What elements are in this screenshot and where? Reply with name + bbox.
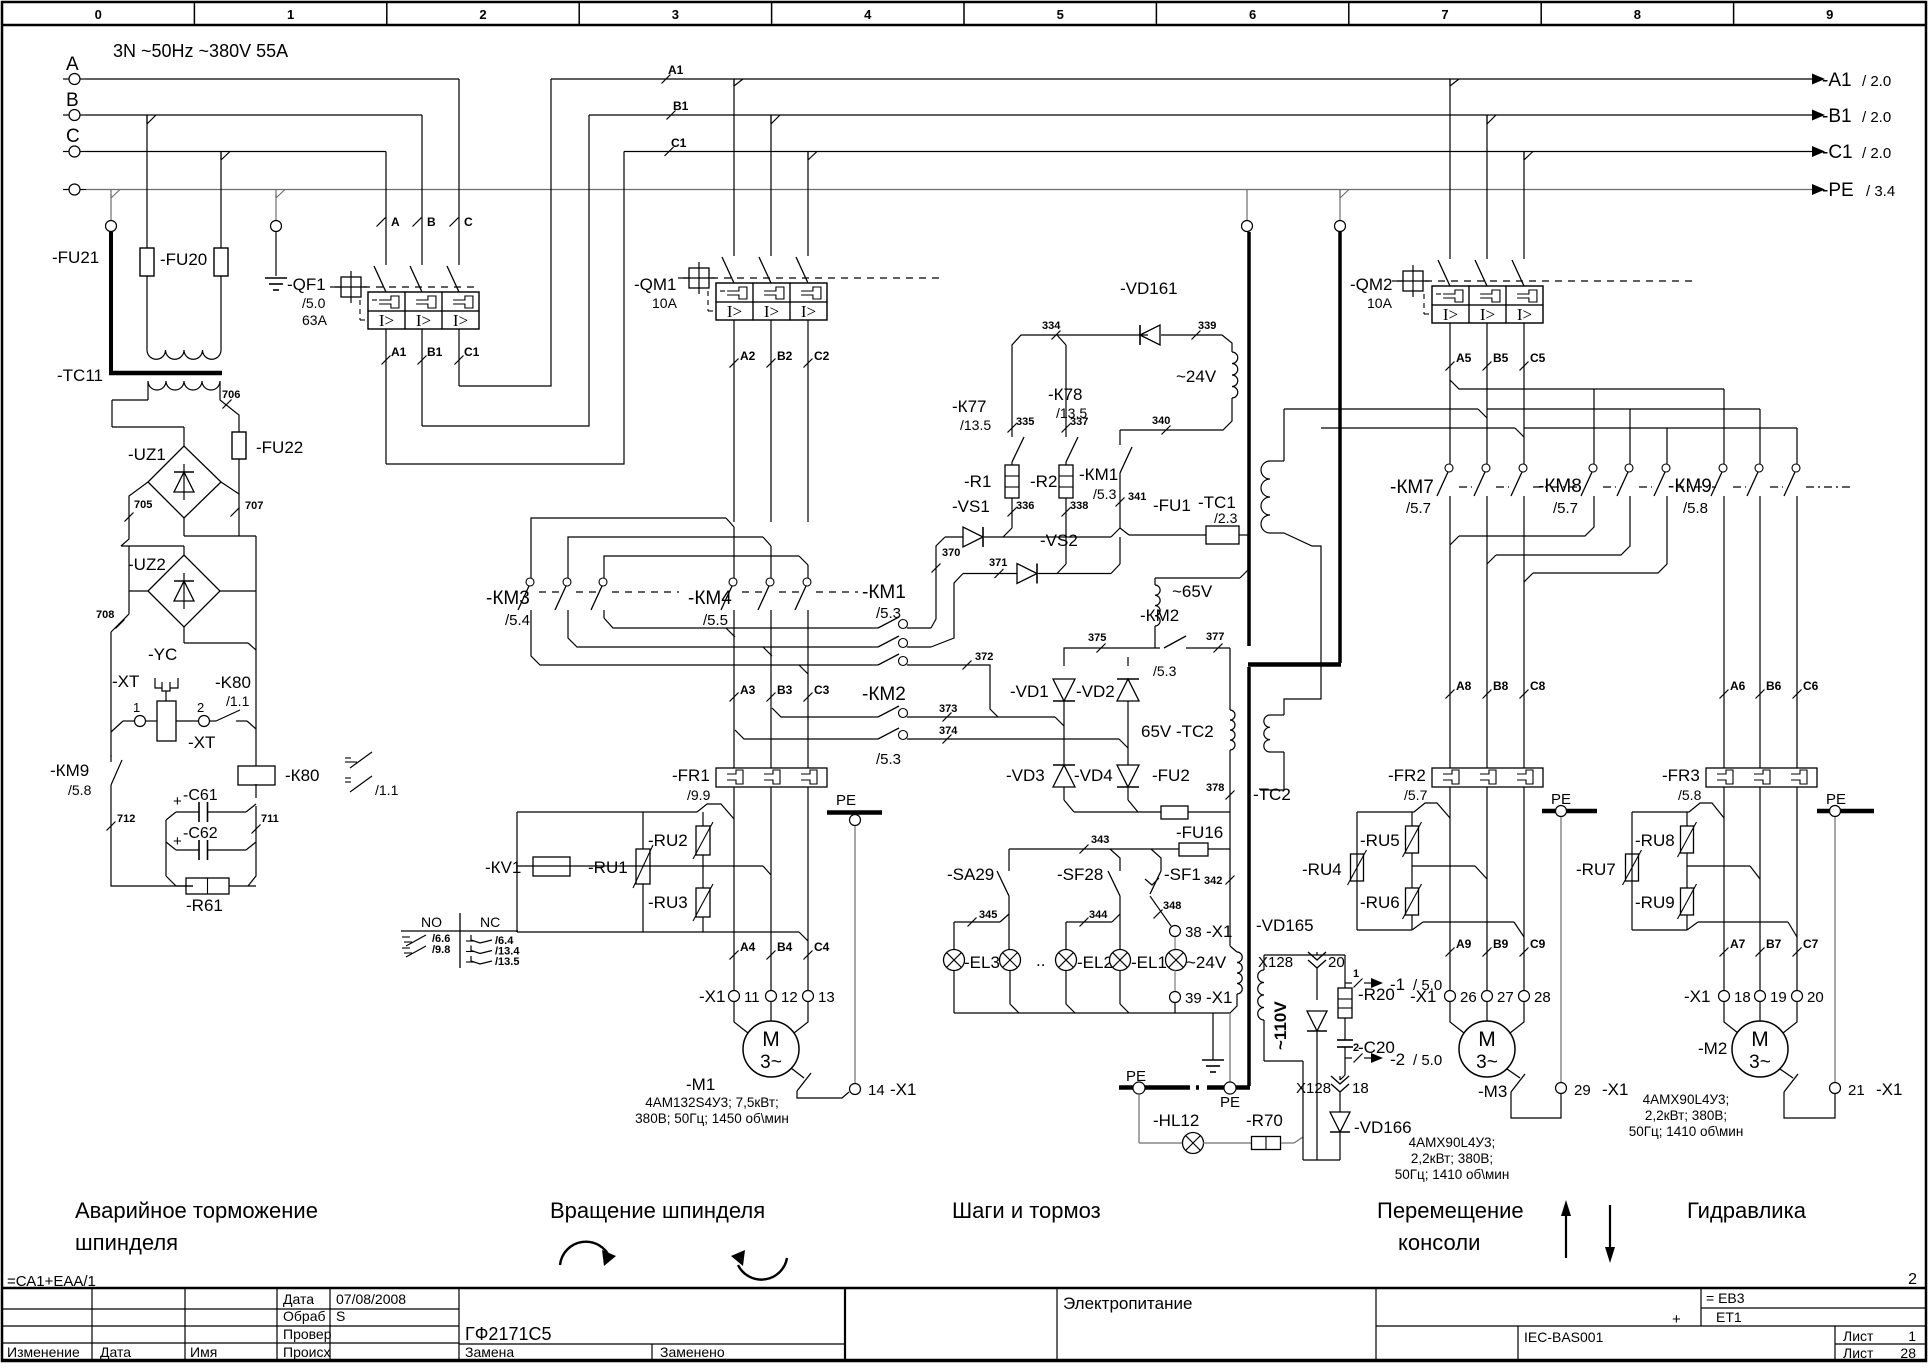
svg-text:-С61: -С61 (183, 787, 218, 804)
node B6 slash (1756, 690, 1765, 699)
svg-text:340: 340 (1152, 415, 1170, 427)
wire XT left (123, 720, 134, 722)
svg-text:28: 28 (1900, 1345, 1916, 1361)
svg-text:-SA29: -SA29 (947, 865, 994, 884)
wire lamp EL2 bottom (1065, 970, 1067, 1004)
wire KM3-C out (531, 618, 872, 665)
svg-text:-PE: -PE (1822, 180, 1854, 201)
node C2 slash (807, 320, 809, 522)
svg-text:-SF28: -SF28 (1057, 865, 1103, 884)
wire 65V-2 vertical top (1229, 648, 1231, 710)
wire M3 in B (1486, 1002, 1488, 1021)
svg-text:C8: C8 (1530, 679, 1546, 693)
svg-text:-К80: -К80 (285, 766, 319, 785)
svg-text:М: М (1751, 1028, 1769, 1051)
wire UZ1 bottom (183, 518, 185, 536)
wire 375 rail (1064, 648, 1160, 657)
svg-text:/ 2.0: / 2.0 (1862, 145, 1891, 162)
terminal 18 (1719, 991, 1730, 1002)
varistor RU5 (1411, 812, 1413, 826)
svg-text:705: 705 (134, 499, 152, 511)
wire phase C jog QM1 (807, 152, 809, 161)
svg-text:-FR1: -FR1 (672, 766, 710, 785)
wire KM1-1 up to VS1 (931, 537, 945, 628)
node 340 (1162, 426, 1171, 435)
svg-text:Электропитание: Электропитание (1063, 1294, 1192, 1313)
wire M2 phase B (1759, 787, 1761, 990)
svg-text:29: 29 (1574, 1082, 1591, 1099)
svg-text:-RU1: -RU1 (588, 858, 628, 877)
node PE partition 2 (1335, 221, 1346, 232)
svg-text:-FR2: -FR2 (1388, 766, 1426, 785)
arrow PE/3.4 (1812, 184, 1825, 195)
wire RU top rail (517, 811, 697, 813)
wire KM8B out merge (1496, 504, 1630, 555)
wire KM2-1 left (772, 708, 872, 717)
svg-text:-X1: -X1 (1206, 922, 1232, 941)
relay coil KV1 (533, 857, 570, 876)
varistor RU4 (1351, 854, 1364, 881)
node C4 slash (804, 951, 813, 960)
wire KM3-A out (604, 618, 872, 628)
contactor KM2 contacts (872, 716, 878, 718)
partition horizontal (1248, 662, 1341, 667)
fuse FU20 pole2 (214, 248, 228, 276)
svg-text:-YC: -YC (148, 645, 177, 664)
node 336 (1008, 508, 1017, 517)
node A5 slash (1449, 323, 1451, 380)
svg-text:345: 345 (979, 909, 997, 921)
svg-text:NO: NO (421, 914, 442, 930)
svg-text:A7: A7 (1730, 937, 1746, 951)
svg-text:-X1: -X1 (1876, 1080, 1902, 1099)
wire TC11 sec right (219, 381, 221, 400)
node 348 (1154, 910, 1163, 919)
node A1 out slash (385, 329, 387, 464)
tap -2/5.0 (1345, 1057, 1352, 1059)
svg-text:334: 334 (1042, 320, 1061, 332)
svg-text:/5.7: /5.7 (1553, 500, 1578, 517)
label B3 (767, 693, 776, 702)
node PE partition 1 (1242, 221, 1253, 232)
diode VD165 diode (1307, 1011, 1327, 1031)
arrow down (1609, 1205, 1611, 1255)
KM3 dashed link (539, 591, 560, 593)
wire lamp EL1 bottom (1119, 970, 1121, 1004)
terminal 28 (1519, 991, 1530, 1002)
svg-text:A4: A4 (740, 940, 756, 954)
node B9 slash (1483, 948, 1492, 957)
breaker QF1 dashed link (363, 286, 475, 288)
motor M2 (1732, 1021, 1788, 1077)
terminal B (69, 110, 80, 121)
svg-text:-К77: -К77 (952, 397, 986, 416)
svg-text:-K80: -K80 (215, 673, 251, 692)
varistor RU1 (642, 812, 644, 849)
node 344 (1066, 921, 1112, 923)
wire phase B jog FU20 (146, 115, 148, 124)
contactor KM4 contacts (729, 578, 737, 586)
lamp EL2 (1056, 950, 1077, 971)
wire C1 to bus A1 (459, 79, 551, 386)
svg-text:М: М (762, 1028, 780, 1051)
lamp 24V (1174, 937, 1176, 950)
wire M2 out to 21 (1784, 1092, 1835, 1118)
node C1 out slash (458, 329, 460, 386)
svg-text:3~: 3~ (1749, 1052, 1771, 1073)
wire UZ1 top feed (112, 426, 184, 428)
svg-text:-R1: -R1 (964, 472, 991, 491)
node A4 slash (730, 951, 739, 960)
wire B1 to bus B1 (422, 115, 589, 426)
partition line left (1247, 232, 1251, 646)
wire TC1 primary top (1283, 409, 1285, 461)
svg-text:11: 11 (744, 989, 760, 1006)
wire TC1 to TC2 (1284, 533, 1321, 715)
svg-text:343: 343 (1091, 834, 1109, 846)
wire lamp EL3b bottom (1009, 970, 1011, 1004)
transformer TC1 primary (1270, 460, 1284, 462)
node B1 out slash (421, 329, 423, 426)
svg-text:A1: A1 (391, 345, 407, 359)
svg-text:339: 339 (1198, 320, 1216, 332)
wire left rail corner (111, 880, 193, 886)
resistor R61 (176, 885, 193, 887)
svg-text:NC: NC (480, 914, 500, 930)
svg-text:+: + (173, 793, 182, 810)
partition line bottom (1247, 667, 1251, 1086)
breaker QM1 handle (689, 268, 709, 288)
svg-text:C9: C9 (1530, 937, 1546, 951)
svg-text:-UZ1: -UZ1 (128, 445, 166, 464)
wire M1 PE blade (791, 1068, 804, 1078)
svg-text:Провер: Провер (283, 1326, 332, 1342)
wire M2 phase C (1796, 787, 1798, 990)
node C9 slash (1520, 948, 1529, 957)
svg-text:-FU16: -FU16 (1176, 823, 1223, 842)
wire phase A jog QM2 (733, 79, 735, 86)
svg-text:373: 373 (939, 703, 957, 715)
terminal PE (69, 184, 80, 195)
contact K78 (1066, 437, 1078, 462)
svg-text:Имя: Имя (190, 1344, 217, 1360)
contact K77 (1012, 437, 1024, 462)
svg-text:-VD165: -VD165 (1256, 916, 1314, 935)
fuse FU22 (232, 432, 246, 459)
svg-text:19: 19 (1770, 989, 1787, 1006)
svg-text:B6: B6 (1766, 679, 1782, 693)
svg-text:PE: PE (1126, 1068, 1146, 1085)
breaker QM1 box (716, 283, 827, 320)
wire RU4 bottom rail (1357, 929, 1412, 931)
svg-text:Аварийное торможение: Аварийное торможение (75, 1198, 318, 1223)
wire bus row1 (1450, 380, 1724, 389)
wire KM9A down (1723, 504, 1725, 768)
wire right rail (255, 784, 257, 798)
terminal 26 (1445, 991, 1456, 1002)
svg-text:50Гц; 1410 об\мин: 50Гц; 1410 об\мин (1629, 1124, 1744, 1139)
wire bus KM3-B (568, 537, 763, 578)
transformer TC2 secondary 65V-2 (1230, 710, 1235, 750)
svg-text:+: + (1672, 1311, 1681, 1328)
svg-text:4: 4 (864, 7, 872, 22)
svg-text:712: 712 (117, 813, 135, 825)
wire FU20 out1 (146, 276, 148, 350)
svg-text:-EL2: -EL2 (1077, 953, 1113, 972)
svg-text:Лист: Лист (1843, 1345, 1874, 1361)
node B4 slash (767, 951, 776, 960)
svg-text:-VD166: -VD166 (1354, 1118, 1412, 1137)
arrow up (1565, 1208, 1567, 1258)
svg-text:2,2кВт; 380В;: 2,2кВт; 380В; (1645, 1108, 1727, 1123)
terminal 19 (1755, 991, 1766, 1002)
svg-text:3~: 3~ (1476, 1052, 1498, 1073)
svg-text:/5.7: /5.7 (1406, 500, 1431, 517)
svg-text:-X1: -X1 (890, 1080, 916, 1099)
breaker QM2 blades (1438, 260, 1450, 286)
pole labels A B C (377, 218, 386, 227)
wire bus row3 drop KM8C (1666, 428, 1668, 464)
svg-text:C: C (464, 215, 473, 229)
arrow A1/2.0 (1812, 74, 1825, 85)
svg-text:-R70: -R70 (1246, 1111, 1283, 1130)
svg-text:I>: I> (727, 302, 742, 321)
svg-text:-EL3: -EL3 (964, 953, 1000, 972)
svg-text:Гидравлика: Гидравлика (1687, 1198, 1807, 1223)
wire M2 phase A (1723, 787, 1725, 990)
svg-text:/5.5: /5.5 (703, 612, 728, 629)
wire FU1 to 65V (1240, 535, 1248, 578)
svg-text:-КМ1: -КМ1 (1079, 465, 1118, 484)
svg-text:A9: A9 (1456, 937, 1472, 951)
svg-text:20: 20 (1328, 954, 1345, 971)
svg-text:/5.3: /5.3 (876, 605, 901, 622)
svg-text:М: М (1478, 1028, 1496, 1051)
svg-text:1: 1 (133, 700, 140, 715)
wire M3 PE blade (1507, 1069, 1520, 1078)
node 337 (1062, 424, 1071, 433)
svg-text:=СА1+ЕАА/1: =СА1+ЕАА/1 (7, 1273, 96, 1290)
svg-text:/5.3: /5.3 (1153, 663, 1177, 679)
svg-text:3~: 3~ (760, 1052, 782, 1073)
wire QM2 pole B top (1486, 115, 1488, 259)
wire bus 335 (1012, 335, 1148, 437)
svg-text:~110V: ~110V (1271, 1001, 1290, 1050)
wire 65V-1 bottom (1154, 626, 1156, 648)
svg-text:6: 6 (1249, 7, 1256, 22)
wire bus to PE2 (1229, 1013, 1231, 1082)
node B5 slash (1486, 323, 1488, 400)
node 338 (1062, 508, 1071, 517)
wire QF1 pole C top (385, 152, 387, 266)
wire QM1 pole C top (807, 152, 809, 257)
wire RU bottom rail (517, 931, 799, 933)
svg-text:-R61: -R61 (186, 896, 223, 915)
lamp EL3a (944, 950, 965, 971)
connector X128-20 (1308, 952, 1326, 960)
wire RU mid rail (517, 865, 763, 867)
svg-text:1: 1 (1908, 1328, 1916, 1344)
terminal 21 (1830, 1083, 1841, 1094)
wire C20 down (1344, 1058, 1346, 1075)
label A3 (730, 693, 739, 702)
wire KM8A out merge (1459, 504, 1594, 536)
svg-text:A6: A6 (1730, 679, 1746, 693)
wire M1 in B (770, 1002, 772, 1021)
varistor RU6 (1411, 866, 1413, 888)
svg-text:2: 2 (479, 7, 486, 22)
svg-text:-RU8: -RU8 (1635, 831, 1675, 850)
breaker QF1 blades (374, 266, 386, 292)
svg-text:-A1: -A1 (1822, 70, 1852, 91)
svg-text:337: 337 (1070, 416, 1088, 428)
wire M3 phase C (1523, 787, 1525, 990)
svg-text:-RU3: -RU3 (648, 893, 688, 912)
svg-text:-X1: -X1 (699, 987, 725, 1006)
rectifier UZ1 (148, 446, 221, 518)
capacitor C20 (1337, 1039, 1353, 1041)
node C6 slash (1793, 690, 1802, 699)
node 711 (252, 825, 261, 834)
svg-text:10А: 10А (652, 295, 678, 311)
wire KM3-B out (568, 618, 872, 647)
svg-text:/5.8: /5.8 (68, 782, 92, 798)
svg-text:-VD3: -VD3 (1006, 766, 1045, 785)
diode VD3 (1063, 726, 1065, 765)
relay coil K80 (238, 766, 275, 785)
wire QM1 pole A top (733, 79, 735, 256)
wire RU4 top rail (1357, 803, 1450, 818)
svg-text:/5.0: /5.0 (302, 295, 326, 311)
wire 343 rail (1008, 849, 1010, 871)
svg-text:18: 18 (1352, 1080, 1369, 1097)
title block grid (2, 1287, 1926, 1290)
wire QM2 pole A top (1449, 79, 1451, 259)
wire VS junction vertical (1111, 528, 1120, 537)
svg-text:Х128: Х128 (1258, 954, 1293, 971)
ground lamp bus (1212, 1013, 1214, 1060)
breaker QM1 dashed link (711, 277, 940, 279)
diode VS1 (945, 536, 963, 538)
svg-text:I>: I> (1480, 305, 1495, 324)
wire M2 in C (1783, 1002, 1797, 1033)
connector X128-18 (1339, 1076, 1341, 1080)
svg-text:B8: B8 (1493, 679, 1509, 693)
svg-text:-С62: -С62 (183, 825, 218, 842)
svg-text:335: 335 (1016, 416, 1034, 428)
svg-text:-QМ2: -QМ2 (1350, 275, 1393, 294)
varistor RU7 (1626, 854, 1639, 881)
svg-text:-XT: -XT (188, 733, 215, 752)
svg-text:-FU2: -FU2 (1152, 766, 1190, 785)
wire KM1-2 up to VS2 (931, 574, 963, 648)
wire PE jog TC partition (1339, 190, 1341, 199)
svg-text:-RU7: -RU7 (1576, 860, 1616, 879)
node A7 slash (1720, 948, 1729, 957)
svg-text:-RU4: -RU4 (1302, 860, 1342, 879)
wire mid 546 (121, 545, 184, 547)
svg-text:~24V: ~24V (1186, 953, 1227, 972)
svg-text:/ 5.0: / 5.0 (1413, 1052, 1442, 1069)
svg-text:/5.7: /5.7 (1404, 787, 1428, 803)
varistor RU3 (702, 866, 704, 888)
terminal 13 (803, 991, 814, 1002)
wire KM1-3 to 372 (931, 665, 998, 717)
wire KM2-1 join bridge (1055, 717, 1064, 726)
wire KM9C drop (1796, 428, 1798, 464)
svg-text:I>: I> (379, 311, 394, 330)
terminal 11 (729, 991, 740, 1002)
svg-text:-КМ1: -КМ1 (862, 582, 906, 603)
node 373 (943, 713, 952, 722)
svg-text:A: A (391, 215, 400, 229)
breaker QM1 blades (722, 257, 734, 283)
node A9 slash (1446, 948, 1455, 957)
svg-text:4АМХ90L4У3;: 4АМХ90L4У3; (1409, 1135, 1496, 1150)
wire RU7 left vertical (1631, 812, 1633, 930)
wire M3 phase B (1486, 787, 1488, 990)
svg-text:IEC-BAS001: IEC-BAS001 (1524, 1329, 1604, 1345)
svg-text:-QF1: -QF1 (287, 275, 326, 294)
svg-text:/9.8: /9.8 (432, 944, 450, 956)
svg-text:~24V: ~24V (1176, 367, 1217, 386)
node 377 (1214, 644, 1223, 653)
svg-text:-C1: -C1 (1822, 142, 1853, 163)
svg-text:Заменено: Заменено (660, 1344, 725, 1360)
svg-text:341: 341 (1128, 491, 1146, 503)
svg-text:-RU2: -RU2 (648, 831, 688, 850)
wire M3 phase A (1449, 787, 1451, 990)
fuse FU1 (1120, 528, 1129, 535)
svg-text:C: C (66, 126, 80, 147)
svg-text:-QM1: -QM1 (634, 275, 677, 294)
svg-text:~65V: ~65V (1172, 582, 1213, 601)
svg-text:374: 374 (939, 725, 958, 737)
svg-text:Замена: Замена (465, 1344, 514, 1360)
wire PE drop partition 2 (1339, 190, 1341, 221)
svg-text:708: 708 (96, 609, 114, 621)
svg-text:3N ~50Hz ~380V 55A: 3N ~50Hz ~380V 55A (113, 41, 288, 61)
wire M2 in B (1759, 1002, 1761, 1021)
svg-text:-EL1: -EL1 (1131, 953, 1167, 972)
wire 342 vertical (1229, 849, 1231, 946)
wire KM9B drop (1759, 409, 1761, 464)
lamp EL1 (1110, 950, 1131, 971)
terminal C (69, 146, 80, 157)
terminal 27 (1482, 991, 1493, 1002)
svg-text:Лист: Лист (1843, 1328, 1874, 1344)
contactor KM1 contacts (872, 627, 878, 629)
svg-text:-SF1: -SF1 (1164, 865, 1201, 884)
svg-text:Х128: Х128 (1296, 1080, 1331, 1097)
wire PE drop to FU21 (110, 194, 112, 220)
wire 707 rail (221, 459, 239, 494)
terminal 14 (850, 1084, 861, 1095)
svg-text:A: A (66, 54, 79, 75)
terminal XT 2 (199, 716, 210, 727)
contact KM1 aux (1119, 473, 1121, 505)
svg-text:-UZ2: -UZ2 (128, 555, 166, 574)
svg-text:-М3: -М3 (1478, 1082, 1507, 1101)
svg-text:2,2кВт; 380В;: 2,2кВт; 380В; (1411, 1151, 1493, 1166)
wire KM2-2 join bridge (1119, 739, 1128, 748)
terminal 12 (766, 991, 777, 1002)
svg-text:/5.3: /5.3 (1093, 486, 1117, 502)
svg-text:380В; 50Гц; 1450 об\мин: 380В; 50Гц; 1450 об\мин (635, 1111, 789, 1126)
wire A1 to bus C1 (386, 152, 624, 465)
svg-text:63А: 63А (302, 312, 328, 328)
wire M1 in A (734, 1002, 748, 1033)
